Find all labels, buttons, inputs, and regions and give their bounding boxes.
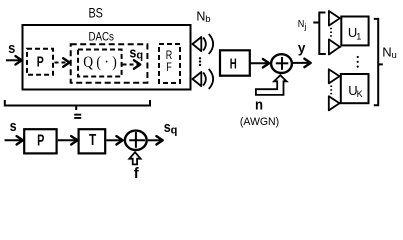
RF chain box (dashed)	[159, 44, 180, 83]
antenna UK top	[329, 69, 341, 83]
svg-text:s: s	[129, 44, 136, 61]
node sq (bottom)	[164, 119, 178, 136]
svg-text:u: u	[392, 50, 397, 61]
svg-text:1: 1	[356, 32, 361, 43]
antenna U1 top	[329, 11, 341, 26]
svg-text:n: n	[255, 97, 263, 114]
node sq	[129, 44, 143, 61]
wire H to adder	[251, 59, 270, 67]
svg-text:f: f	[134, 165, 140, 182]
wire T to adder	[106, 136, 122, 144]
quantizer Q (dashed box)	[78, 50, 122, 77]
user UK box	[341, 74, 369, 103]
dotted line between UK antennas	[330, 86, 332, 95]
svg-text:N: N	[382, 44, 391, 59]
adder (top)	[271, 54, 292, 73]
antenna UK bottom	[329, 96, 341, 110]
svg-text:N: N	[298, 18, 305, 30]
hollow arrow f into adder	[129, 152, 140, 164]
underbrace	[5, 100, 150, 110]
wire P to T	[58, 136, 78, 144]
antenna BS top	[193, 34, 214, 54]
label Nu	[382, 44, 396, 61]
svg-text:Q ( · ): Q ( · )	[83, 54, 117, 71]
wire adder to users	[293, 59, 311, 67]
brace Nj group	[313, 13, 326, 55]
svg-text:F: F	[166, 60, 172, 74]
BS box	[23, 25, 191, 90]
svg-text:q: q	[171, 124, 178, 136]
DACs group box (dashed)	[71, 44, 148, 83]
antenna U1 bottom	[329, 39, 341, 54]
channel H box	[220, 50, 250, 75]
svg-text:(AWGN): (AWGN)	[240, 116, 279, 128]
svg-text:q: q	[136, 50, 143, 62]
svg-text:b: b	[205, 14, 210, 25]
label Nj	[298, 18, 307, 31]
wire s into BS	[6, 56, 22, 64]
antenna BS bottom	[193, 69, 214, 89]
svg-text:j: j	[304, 21, 307, 31]
adder (bottom)	[125, 131, 147, 150]
wire P to DACs (dashed)	[55, 58, 70, 66]
svg-text:H: H	[230, 56, 237, 73]
noise arrow n (hollow bent arrow)	[256, 75, 287, 95]
svg-text:N: N	[196, 9, 205, 23]
dotted line between U1 antennas	[330, 28, 332, 37]
wire s to P	[5, 136, 23, 144]
precoder P box (bottom)	[24, 129, 56, 153]
svg-text:DACs: DACs	[88, 29, 114, 43]
svg-text:s: s	[10, 118, 17, 135]
dots between BS antennas	[199, 57, 201, 66]
svg-text:T: T	[89, 132, 96, 149]
svg-text:P: P	[37, 133, 44, 150]
bracket Nu	[374, 19, 383, 105]
svg-text:P: P	[37, 54, 44, 71]
label Nb	[196, 9, 210, 25]
equals sign	[74, 114, 81, 119]
dots between users	[357, 56, 359, 68]
wire adder to sq	[148, 136, 163, 144]
precoder P (dashed)	[27, 49, 53, 75]
svg-text:y: y	[298, 41, 306, 56]
block T box	[79, 129, 106, 153]
svg-text:s: s	[8, 40, 15, 57]
user U1 box	[341, 17, 368, 46]
svg-text:BS: BS	[88, 4, 103, 20]
wire Q to RF (dashed)	[123, 60, 141, 68]
svg-text:K: K	[357, 89, 363, 99]
